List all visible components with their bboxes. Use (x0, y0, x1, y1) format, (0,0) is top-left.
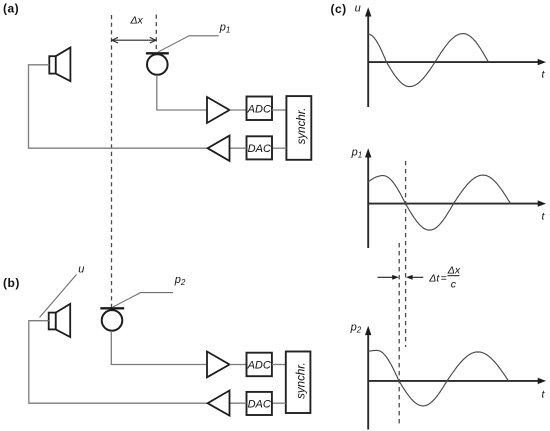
plot u(t): horizontal axis arrowhead (538, 59, 546, 65)
svg-text:u: u (78, 264, 84, 276)
DAC block U2 (247, 136, 273, 159)
svg-text:Δt: Δt (428, 273, 440, 285)
wire from LS2 to amplifier A4 output (29, 321, 208, 404)
wire A3 to ADC2 (230, 364, 247, 366)
plot p2(t): vertical axis arrowhead (365, 326, 371, 335)
svg-text:DAC: DAC (248, 398, 271, 410)
svg-text:ADC: ADC (247, 360, 271, 372)
loudspeaker LS2 (49, 304, 70, 337)
plot p1(t): vertical axis (367, 156, 369, 249)
wire from microphone M1 to amplifier A1 input (157, 75, 207, 110)
loudspeaker LS1 (49, 48, 70, 82)
leader line from u to loudspeaker LS2 wire (40, 275, 77, 318)
amplifier A4 (power amp, left-pointing triangle) (208, 391, 230, 416)
svg-text:(b): (b) (3, 276, 20, 290)
DAC block U5 (247, 392, 272, 415)
wire DAC1 to amplifier A2 (230, 147, 247, 149)
microphone M2 body (102, 310, 123, 331)
microphone M1 diaphragm plate (146, 52, 169, 54)
plot p2(t): horizontal axis arrowhead (538, 378, 546, 384)
wire synchr to DAC1 (272, 147, 286, 149)
microphone M2 diaphragm plate (100, 307, 124, 309)
synchroniser block U3 (a) (286, 96, 311, 160)
amplifier A2 (power amp, left-pointing triangle) (208, 136, 230, 161)
fraction bar of Δx/c (448, 275, 460, 277)
plot u(t): horizontal axis (368, 61, 539, 63)
svg-text:c: c (451, 278, 457, 290)
svg-text:u: u (355, 3, 361, 15)
microphone M1 body (147, 54, 168, 75)
waveform u(t) (368, 34, 489, 87)
svg-text:synchr.: synchr. (296, 108, 308, 145)
dashed reference line through source plane (left) (111, 15, 113, 308)
plot p2(t): vertical axis (367, 333, 369, 430)
svg-text:(c): (c) (331, 2, 347, 16)
svg-text:DAC: DAC (248, 143, 271, 155)
dimension arrows Δt between dashed markers (378, 276, 424, 278)
amplifier A1 (mic preamp, right-pointing triangle) (207, 97, 230, 123)
wire from LS1 to amplifier A2 output (29, 65, 207, 148)
dashed marker line at p2 zero crossing (398, 243, 400, 427)
svg-text:(a): (a) (3, 1, 19, 15)
ADC block U4 (247, 353, 272, 377)
svg-text:synchr.: synchr. (296, 362, 308, 399)
wire ADC1 to synchr block (272, 109, 286, 111)
waveform p1(t) (368, 175, 511, 230)
svg-text:Δx: Δx (447, 264, 461, 276)
amplifier A3 (mic preamp, right-pointing triangle) (207, 352, 230, 378)
wire from microphone M2 to amplifier A3 input (111, 331, 207, 365)
dashed reference line through microphone M1 plane (right) (155, 15, 157, 53)
leader line from p1 to microphone M1 (158, 36, 219, 52)
plot p1(t): horizontal axis arrowhead (538, 200, 546, 206)
wire A1 to ADC1 (230, 109, 247, 111)
svg-text:Δx: Δx (130, 14, 144, 26)
plot p1(t): horizontal axis (368, 203, 539, 205)
plot u(t): vertical axis arrowhead (365, 7, 371, 16)
synchroniser block U6 (b) (286, 352, 311, 414)
wire synchr to DAC2 (272, 402, 286, 404)
wire ADC2 to synchr block (b) (272, 364, 286, 366)
ADC block U1 (247, 97, 273, 121)
wire DAC2 to amplifier A4 (230, 402, 247, 404)
leader line from p2 to microphone M2 (113, 293, 173, 308)
waveform p2(t) (368, 350, 509, 406)
svg-text:=: = (441, 273, 447, 285)
svg-text:ADC: ADC (247, 103, 271, 115)
dashed marker line at p1 zero crossing (405, 161, 407, 347)
plot u(t): vertical axis (367, 15, 369, 108)
plot p1(t): vertical axis arrowhead (365, 148, 371, 157)
dimension arrow Δx (double-headed) (112, 37, 156, 43)
plot p2(t): horizontal axis (368, 380, 539, 382)
